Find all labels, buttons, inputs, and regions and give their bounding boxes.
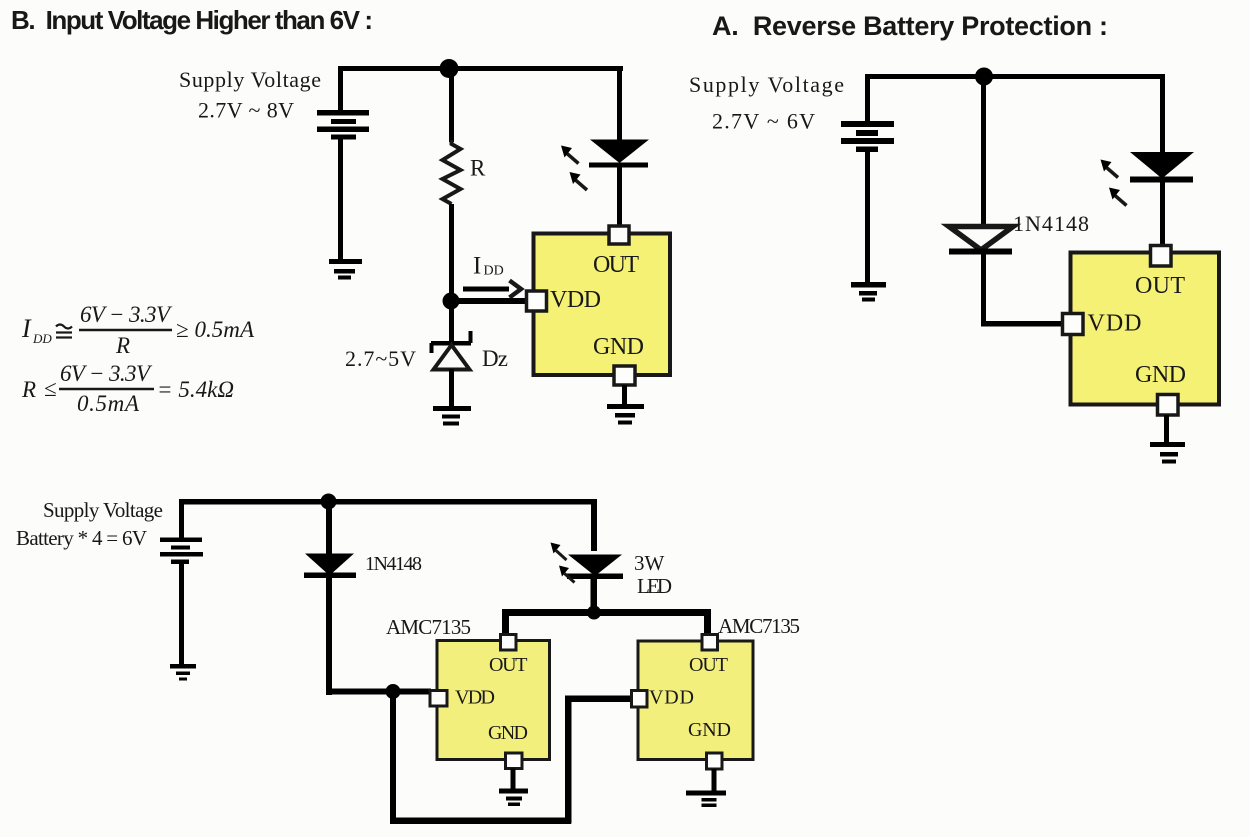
wire GND2 to ground [712, 769, 717, 791]
node junction dot C out [587, 606, 601, 620]
wire to VDD pin 2 [565, 696, 632, 703]
diode D3 1N4148 (C) [304, 554, 356, 579]
svg-text:DD: DD [484, 264, 504, 279]
wire rail to LED A [1160, 74, 1165, 152]
battery B [317, 110, 369, 140]
wire up to VDD2 level [565, 696, 572, 824]
wire bottom run [390, 818, 571, 825]
arrow LED A light 1 [1101, 160, 1119, 178]
ground IC U3 [499, 789, 528, 807]
arrow IDD current [463, 281, 521, 298]
wire rail to diode A [981, 74, 986, 226]
svg-text:AMC7135: AMC7135 [718, 614, 800, 638]
svg-text:DD: DD [32, 331, 52, 346]
svg-text:GND: GND [488, 722, 528, 744]
wire GND pin B to ground [622, 385, 627, 405]
ground IC A [1150, 442, 1185, 464]
ground battery A [851, 282, 886, 302]
wire rail to LED B [617, 66, 622, 140]
svg-text:GND: GND [688, 719, 731, 741]
svg-text:0.5mA: 0.5mA [77, 391, 140, 416]
pin OUT (U4) [702, 635, 718, 651]
pin GND (U3) [506, 753, 523, 769]
wire battery C bottom lead [179, 564, 184, 664]
ground IC B [607, 404, 644, 425]
wire zener to ground [449, 369, 454, 407]
svg-text:1N4148: 1N4148 [1013, 211, 1089, 236]
svg-text:VDD: VDD [455, 687, 495, 709]
svg-text:VDD: VDD [649, 687, 694, 709]
svg-text:Dz: Dz [482, 346, 508, 371]
svg-text:2.7~5V: 2.7~5V [345, 346, 416, 371]
battery C [160, 538, 203, 565]
wire LED B to OUT pin [617, 167, 622, 229]
IC U2 (A) body [1071, 253, 1220, 405]
wire LED A to OUT pin [1160, 182, 1165, 246]
pin OUT (U3) [501, 635, 517, 651]
wire top rail B [338, 66, 623, 71]
label IDD [473, 253, 504, 280]
IC U4 AMC7135 body [638, 641, 753, 760]
wire rail to diode C [326, 499, 332, 554]
svg-text:B. Input Voltage Higher than: B. Input Voltage Higher than 6V : [11, 5, 373, 35]
LED D2 (A) [1130, 152, 1194, 183]
wire node to OUT2 corner [594, 609, 711, 616]
svg-text:2.7V ~ 6V: 2.7V ~ 6V [712, 109, 815, 134]
zener diode Dz [430, 331, 473, 370]
wire rail to resistor [449, 66, 454, 142]
wire node to OUT1 corner [502, 609, 594, 616]
IC U3 AMC7135 body [437, 641, 550, 760]
wire node to zener [449, 301, 454, 342]
wire battery C top lead [179, 499, 184, 538]
battery A [841, 121, 894, 152]
svg-text:Battery * 4 = 6V: Battery * 4 = 6V [16, 526, 147, 550]
wire diode C to VDD1 [326, 689, 431, 695]
wire diode C down [326, 578, 332, 695]
wire corner to VDD pin A [981, 321, 1063, 327]
node junction dot B mid [443, 293, 460, 310]
svg-text:R: R [470, 156, 486, 181]
arrow LED A light 2 [1109, 188, 1127, 206]
svg-text:6V − 3.3V: 6V − 3.3V [60, 361, 153, 386]
svg-text:Supply Voltage: Supply Voltage [43, 498, 163, 522]
pin OUT (B) [609, 226, 629, 244]
wire battery A bottom lead [865, 152, 870, 282]
arrow LED C light 2 [559, 566, 575, 583]
svg-text:AMC7135: AMC7135 [386, 615, 471, 639]
pin VDD (B) [527, 291, 547, 311]
LED D4 3W (C) [567, 555, 623, 580]
arrow LED B light 1 [561, 146, 579, 164]
IC U1 (B) body [534, 234, 671, 376]
pin GND (B) [614, 366, 635, 385]
node junction dot B top [440, 59, 459, 78]
svg-text:R: R [115, 333, 130, 358]
wire battery A top lead [865, 74, 870, 121]
node junction dot A [975, 68, 993, 86]
svg-text:VDD: VDD [1088, 311, 1142, 337]
ground zener [433, 406, 471, 426]
svg-text:OUT: OUT [1135, 273, 1185, 299]
wire top rail A [865, 74, 1165, 79]
diode D1 1N4148 (A) [949, 227, 1013, 255]
wire node down left [390, 691, 396, 822]
svg-text:6V − 3.3V: 6V − 3.3V [80, 302, 173, 327]
pin VDD (A) [1063, 314, 1084, 335]
pin VDD (U3) [430, 691, 447, 707]
wire GND pin A to ground [1164, 415, 1169, 442]
ground battery B [329, 259, 362, 280]
svg-text:≥ 0.5mA: ≥ 0.5mA [176, 317, 255, 342]
svg-text:OUT: OUT [689, 654, 728, 676]
equation 2: R <= (6V-3.3V)/0.5mA = 5.4kOhm [21, 361, 234, 416]
svg-text:R: R [21, 377, 36, 402]
svg-text:A. Reverse Battery Protection: A. Reverse Battery Protection : [712, 11, 1108, 41]
svg-text:LED: LED [637, 574, 672, 598]
wire down to OUT pin 2 [704, 609, 711, 636]
pin OUT (A) [1151, 246, 1172, 267]
wire battery B bottom lead [338, 139, 343, 259]
wire GND1 to ground [511, 769, 516, 789]
arrow LED C light 1 [551, 543, 567, 561]
svg-text:VDD: VDD [550, 287, 601, 313]
wire rail to LED C [591, 499, 597, 551]
svg-text:OUT: OUT [489, 654, 528, 676]
svg-text:1N4148: 1N4148 [365, 553, 422, 575]
svg-text:OUT: OUT [593, 252, 639, 278]
node junction dot C top [321, 494, 337, 510]
wire diode A to corner [981, 254, 986, 326]
svg-text:GND: GND [1135, 362, 1186, 388]
node junction dot C vdd [386, 684, 401, 699]
equation 1: IDD = (6V-3.3V)/R >= 0.5mA [21, 302, 255, 358]
svg-text:I: I [21, 314, 32, 343]
svg-text:GND: GND [593, 334, 644, 360]
pin GND (U4) [707, 753, 723, 769]
pin VDD (U4) [632, 691, 648, 708]
svg-text:= 5.4kΩ: = 5.4kΩ [157, 377, 234, 402]
wire down to OUT pin 1 [502, 609, 509, 636]
resistor R [443, 140, 461, 204]
svg-text:3W: 3W [634, 551, 665, 575]
svg-text:2.7V ~ 8V: 2.7V ~ 8V [198, 98, 294, 123]
wire node to VDD pin B [451, 298, 527, 304]
pin GND (A) [1158, 395, 1179, 416]
svg-text:≤: ≤ [44, 376, 57, 401]
ground IC U4 [686, 791, 726, 808]
wire top rail C [179, 499, 595, 505]
LED D1 (B) [589, 140, 649, 168]
svg-text:Supply Voltage: Supply Voltage [179, 67, 321, 92]
wire resistor to node [449, 204, 454, 301]
wire battery B top lead [338, 66, 343, 111]
arrow LED B light 2 [570, 172, 588, 190]
wire LED C to node [591, 577, 598, 613]
svg-text:I: I [473, 253, 481, 280]
ground battery C [170, 664, 196, 681]
